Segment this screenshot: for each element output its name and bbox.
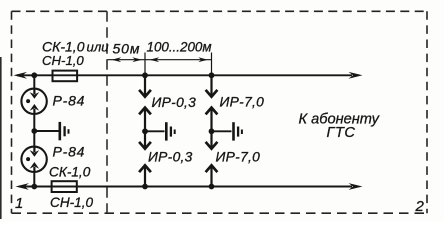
svg-text:ГТС: ГТС bbox=[327, 125, 356, 141]
svg-text:Р-84: Р-84 bbox=[53, 93, 86, 109]
spark gap SG1a (ИР-0,3) upper electrode bbox=[144, 75, 146, 96]
zone divider dashed line between section 1 and 2 bbox=[106, 11, 108, 213]
wire between arresters P1,P2 bbox=[33, 114, 35, 147]
spark gap SG2b (ИР-7,0) lower electrode bbox=[206, 165, 218, 172]
wire from node to ground G2 bbox=[145, 130, 165, 132]
spark gap SG1b (ИР-0,3) lower electrode bbox=[139, 165, 151, 172]
wire from node to ground G1 bbox=[34, 130, 58, 132]
svg-text:СК-1,0: СК-1,0 bbox=[49, 165, 91, 180]
dimension 100...200 m bbox=[146, 40, 212, 62]
svg-text:Р-84: Р-84 bbox=[53, 144, 86, 160]
wire: top line (line A) bbox=[17, 74, 352, 76]
svg-text:ИР-0,3: ИР-0,3 bbox=[152, 95, 197, 110]
arrow left end of bottom wire bbox=[16, 183, 30, 190]
dimension extension tick at spark-gap column 1 bbox=[144, 53, 146, 76]
svg-text:СК-1,0или: СК-1,0или bbox=[42, 38, 109, 54]
spark gap SG2a (ИР-7,0) lower electrode bbox=[206, 108, 218, 115]
svg-text:ИР-7,0: ИР-7,0 bbox=[220, 95, 265, 110]
junction node between arresters bbox=[31, 128, 37, 134]
arrow right end of bottom wire bbox=[349, 183, 363, 190]
dimension extension tick at spark-gap column 2 bbox=[211, 53, 213, 76]
wire from top line to arrester P1 bbox=[33, 75, 35, 90]
svg-text:2: 2 bbox=[415, 198, 425, 215]
spark gap column 1: junction on bottom wire bbox=[142, 184, 148, 190]
fuse F1 (СК-1,0 / СН-1,0) on top wire bbox=[53, 71, 78, 82]
wire from arrester P2 to bottom line bbox=[33, 172, 35, 187]
spark gap column 2: junction on bottom wire bbox=[209, 184, 215, 190]
spark gap SG2a (ИР-7,0) upper electrode bbox=[210, 75, 212, 96]
zone boundary dashed frame bbox=[12, 11, 428, 213]
svg-text:ИР-7,0: ИР-7,0 bbox=[216, 150, 261, 165]
spark gap SG2b (ИР-7,0) upper electrode bbox=[210, 131, 212, 148]
junction on bottom wire at arrester branch bbox=[31, 184, 37, 190]
arrow left end of top wire bbox=[14, 72, 28, 79]
ground G2 bbox=[166, 122, 174, 140]
spark gap column 2: junction on top wire bbox=[209, 72, 215, 78]
arrester P2 Р-84 (gas discharge tube) bbox=[21, 147, 46, 172]
fuse F2 (СК-1,0 / СН-1,0) on bottom wire bbox=[52, 181, 77, 192]
svg-text:50м: 50м bbox=[113, 41, 141, 57]
ground G3 bbox=[234, 122, 242, 140]
scan edge artifact left bbox=[0, 57, 2, 219]
dimension 50 m bbox=[108, 41, 145, 63]
spark gap SG1b (ИР-0,3) upper electrode bbox=[144, 131, 146, 148]
spark gap SG1a (ИР-0,3) lower electrode bbox=[139, 108, 151, 115]
svg-text:СН-1,0: СН-1,0 bbox=[50, 195, 93, 210]
node of column 1 bbox=[142, 128, 148, 134]
wire from node to ground G3 bbox=[212, 130, 232, 132]
svg-text:100...200м: 100...200м bbox=[147, 40, 212, 55]
ground G1 bbox=[60, 122, 69, 140]
spark gap column 1: junction on top wire bbox=[142, 72, 148, 78]
svg-text:1: 1 bbox=[15, 195, 23, 212]
svg-text:СН-1,0: СН-1,0 bbox=[42, 53, 84, 68]
arrester P1 Р-84 (gas discharge tube) bbox=[21, 89, 46, 114]
junction on top wire at arrester branch bbox=[31, 72, 37, 78]
svg-text:ИР-0,3: ИР-0,3 bbox=[148, 150, 193, 165]
arrow right end of top wire bbox=[349, 72, 363, 79]
node of column 2 bbox=[209, 128, 215, 134]
wire: bottom line (line B) bbox=[19, 186, 352, 188]
